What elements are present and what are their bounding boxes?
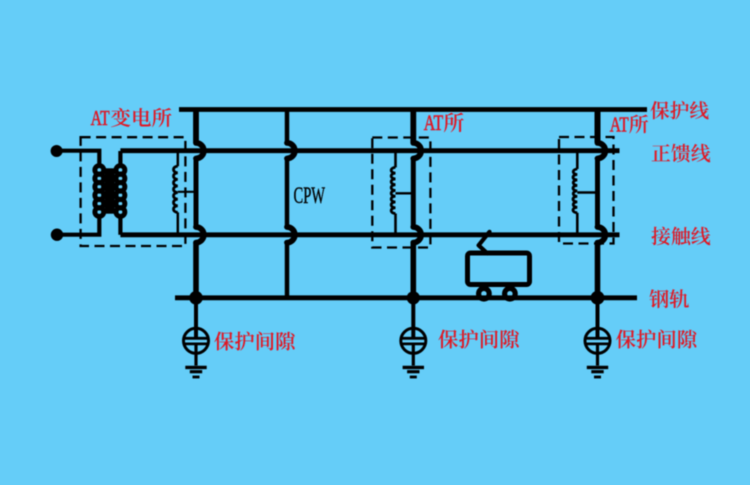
svg-text:AT: AT <box>424 110 444 135</box>
svg-text:CPW: CPW <box>294 183 326 209</box>
svg-text:AT: AT <box>610 113 629 137</box>
svg-text:AT: AT <box>91 106 110 130</box>
